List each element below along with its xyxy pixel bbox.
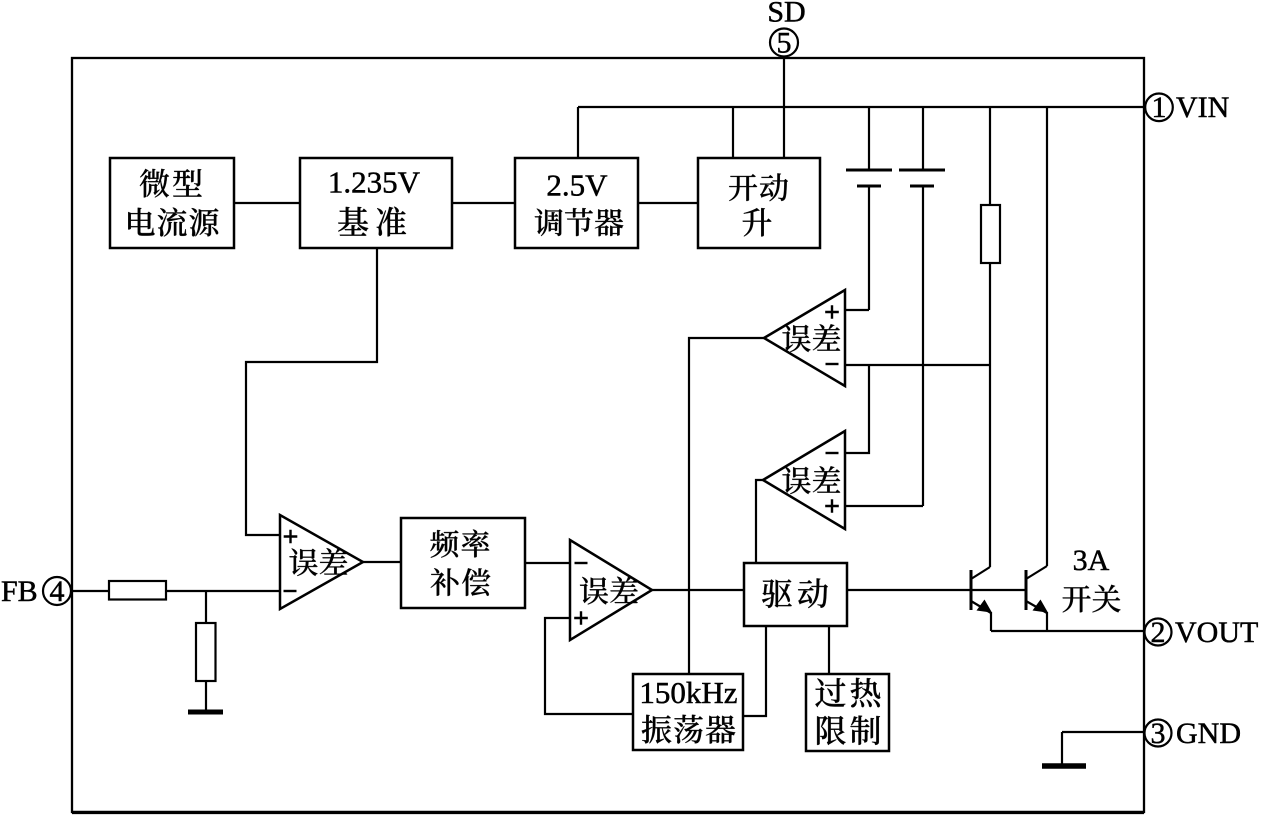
svg-text:1.235V: 1.235V xyxy=(328,165,421,200)
wire VIN to U4 xyxy=(732,107,734,158)
A4 minus input mark xyxy=(826,452,839,454)
U2 label xyxy=(338,207,406,237)
block U1 micro current source xyxy=(110,158,234,248)
A3 minus input mark xyxy=(826,363,839,365)
A3 label xyxy=(782,324,840,352)
wire A2 output to driver xyxy=(652,589,744,591)
wire driver to thermal limit xyxy=(828,626,830,674)
wire A1 output to frequency compensation xyxy=(363,561,400,563)
svg-text:1: 1 xyxy=(1152,91,1167,124)
capacitor C1 plates xyxy=(846,169,892,172)
wire A4 - input to A3 - net xyxy=(845,365,869,453)
transistor Q1 base bar xyxy=(970,570,973,610)
svg-text:VOUT: VOUT xyxy=(1175,616,1258,649)
U4 label line 1 xyxy=(729,173,788,201)
U8 label line 2 xyxy=(817,716,880,745)
wire FB pin to R1 xyxy=(71,590,109,592)
pin 3 circle xyxy=(1145,720,1172,747)
wire Q2 collector column from VIN xyxy=(1046,107,1048,566)
wire R3 to Q1 collector xyxy=(989,263,991,567)
U7 label xyxy=(642,715,736,744)
wire U1 to U2 xyxy=(234,202,300,204)
pin 5 circle xyxy=(770,29,798,57)
wire U3 to U4 xyxy=(638,202,698,204)
resistor R1 xyxy=(109,581,166,600)
wire FB node to R2 xyxy=(205,591,207,623)
op-amp A2 PWM comparator xyxy=(570,540,652,640)
wire to ground bar xyxy=(1061,732,1063,766)
block U4 startup xyxy=(698,158,820,248)
wire U2 to U3 xyxy=(452,202,515,204)
ground bar near GND pin xyxy=(1042,763,1086,769)
svg-text:2: 2 xyxy=(1151,616,1166,649)
A4 plus input mark xyxy=(825,499,839,513)
U5 label line 2 xyxy=(431,568,491,596)
capacitor C1 top lead xyxy=(868,107,870,170)
block U7 150kHz oscillator xyxy=(633,674,743,750)
block U8 thermal limit xyxy=(806,674,889,751)
svg-text:SD: SD xyxy=(767,0,805,28)
wire driver to oscillator xyxy=(743,626,766,716)
transistor Q1 collector stroke xyxy=(971,567,990,579)
wire R2 to ground xyxy=(205,681,207,712)
IC outer boundary box xyxy=(72,58,1144,812)
A1 minus input mark xyxy=(284,590,297,592)
wire A3 - input to R3 node xyxy=(845,364,990,366)
U1 label line 1 xyxy=(140,169,202,198)
wire emitters to VOUT pin xyxy=(991,630,1144,632)
A3 plus input mark xyxy=(825,305,839,319)
U8 label line 1 xyxy=(815,678,880,708)
resistor R2 xyxy=(196,623,216,681)
Q1 emitter arrowhead xyxy=(977,600,993,613)
block U5 frequency compensation xyxy=(401,518,525,608)
op-amp A3 error comparator xyxy=(764,290,845,386)
svg-text:3: 3 xyxy=(1151,717,1166,750)
wire A4 + input to C2 xyxy=(845,505,923,507)
wire VIN to U3 xyxy=(577,107,579,158)
A1 label xyxy=(289,548,347,576)
capacitor C2 bottom lead to comparator A4 + input xyxy=(922,186,924,506)
capacitor C1 bottom lead to comparator A3 + input xyxy=(868,186,870,310)
U3 label xyxy=(535,208,624,236)
U5 label line 1 xyxy=(430,530,489,558)
wire A3 output to oscillator xyxy=(689,338,764,674)
transistor Q1 emitter stroke xyxy=(971,601,991,613)
wire R1 to A1 - input xyxy=(166,590,280,592)
wire Q2 emitter down xyxy=(1046,612,1048,631)
A2 label xyxy=(580,577,638,605)
svg-text:GND: GND xyxy=(1176,717,1241,750)
svg-text:4: 4 xyxy=(50,575,65,608)
A2 plus input mark xyxy=(574,611,588,625)
block U2 1.235V reference xyxy=(300,158,452,248)
block U3 2.5V regulator xyxy=(515,158,638,248)
wire A3 + input to C1 xyxy=(845,309,869,311)
Q2 emitter arrowhead xyxy=(1033,600,1049,613)
resistor R3 top lead from VIN xyxy=(989,107,991,205)
wire GND pin xyxy=(1062,731,1144,733)
op-amp A1 error amplifier xyxy=(280,515,363,609)
wire driver to transistor bases xyxy=(847,589,1026,591)
pin 4 circle xyxy=(43,577,71,605)
wire SD pin to startup block xyxy=(783,57,785,159)
U4 label line 2 xyxy=(743,208,772,236)
svg-text:FB: FB xyxy=(1,575,38,608)
transistor Q2 base bar xyxy=(1025,570,1028,610)
pin 2 circle xyxy=(1145,619,1172,646)
A1 plus input mark xyxy=(284,530,298,544)
svg-text:2.5V: 2.5V xyxy=(546,168,608,203)
wire VIN rail xyxy=(578,106,1144,108)
transistor Q2 collector stroke xyxy=(1026,566,1047,579)
A4 label xyxy=(782,466,840,494)
wire U5 to A2 - input xyxy=(525,562,570,564)
wire Q1 emitter down xyxy=(990,612,992,631)
svg-text:VIN: VIN xyxy=(1176,91,1229,124)
svg-text:5: 5 xyxy=(777,26,792,59)
U6 label xyxy=(762,578,828,608)
capacitor C2 plates xyxy=(899,169,945,172)
svg-text:150kHz: 150kHz xyxy=(639,675,737,710)
U1 label line 2 xyxy=(128,208,218,237)
wire A2 + input to oscillator xyxy=(545,618,633,714)
resistor R3 xyxy=(981,205,1000,263)
capacitor C2 top lead xyxy=(922,107,924,170)
op-amp A4 error comparator xyxy=(763,431,845,529)
wire U2 reference to A1 + input xyxy=(246,248,377,535)
svg-text:3A: 3A xyxy=(1073,544,1110,577)
pin 1 circle xyxy=(1145,94,1173,122)
wire A4 output to driver xyxy=(756,480,763,563)
ground bar under R2 xyxy=(188,710,223,715)
A2 minus input mark xyxy=(575,562,588,564)
transistor Q2 emitter stroke xyxy=(1026,601,1047,613)
block U6 driver xyxy=(744,563,847,626)
label switch xyxy=(1063,585,1121,613)
outer box bottom edge xyxy=(72,811,1144,814)
